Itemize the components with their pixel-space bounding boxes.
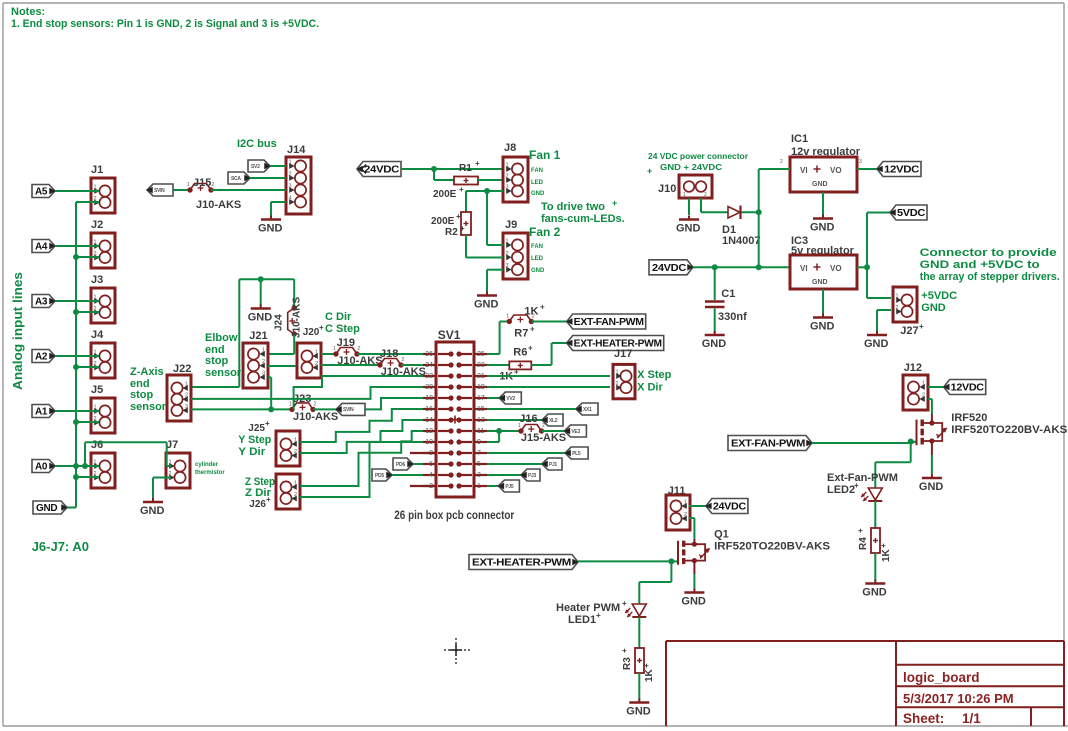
svg-text:3: 3 [859, 159, 862, 165]
svg-text:GND: GND [812, 181, 828, 188]
svg-text:the array of stepper drivers.: the array of stepper drivers. [920, 271, 1060, 283]
svg-text:2: 2 [212, 182, 215, 188]
svg-text:+: + [265, 419, 270, 428]
svg-text:J18: J18 [380, 348, 398, 360]
svg-text:+: + [459, 185, 464, 194]
svg-text:2: 2 [262, 359, 265, 365]
svg-text:+: + [854, 481, 859, 490]
svg-text:1: 1 [616, 370, 619, 376]
svg-text:fans-cum-LEDs.: fans-cum-LEDs. [541, 213, 625, 225]
svg-text:3: 3 [185, 404, 188, 410]
svg-text:+: + [266, 495, 271, 504]
svg-text:4: 4 [289, 196, 292, 202]
svg-text:2: 2 [616, 381, 619, 387]
svg-text:J19: J19 [337, 337, 355, 349]
svg-text:+: + [540, 303, 545, 312]
svg-text:VV2: VV2 [506, 396, 515, 402]
svg-text:25: 25 [477, 351, 485, 358]
svg-text:6: 6 [429, 461, 433, 468]
svg-text:5VDC: 5VDC [897, 208, 925, 219]
svg-text:thermistor: thermistor [195, 470, 225, 476]
svg-text:LED: LED [531, 180, 544, 186]
svg-text:2: 2 [358, 346, 361, 352]
svg-text:+: + [528, 344, 533, 353]
svg-text:GND: GND [812, 279, 828, 286]
svg-text:7: 7 [477, 450, 481, 457]
svg-text:GND: GND [862, 587, 887, 599]
svg-text:PJ5: PJ5 [505, 484, 514, 490]
svg-text:+: + [475, 159, 480, 168]
svg-text:5: 5 [477, 461, 481, 468]
svg-text:2: 2 [402, 357, 405, 363]
svg-text:1. End stop sensors: Pin 1 is: 1. End stop sensors: Pin 1 is GND, 2 is … [11, 18, 319, 30]
svg-text:1: 1 [315, 350, 318, 356]
svg-text:C Dir: C Dir [325, 311, 352, 323]
svg-text:SVIN: SVIN [343, 407, 354, 413]
svg-text:1: 1 [518, 423, 521, 429]
svg-text:R7: R7 [514, 328, 528, 340]
svg-text:12VDC: 12VDC [884, 165, 919, 176]
svg-text:2: 2 [185, 393, 188, 399]
svg-text:Fan 2: Fan 2 [529, 225, 561, 239]
svg-text:1: 1 [94, 350, 97, 356]
svg-text:+: + [612, 198, 617, 208]
svg-text:+: + [879, 543, 888, 548]
svg-text:J2: J2 [91, 219, 103, 231]
svg-text:J15: J15 [193, 177, 211, 189]
svg-text:logic_board: logic_board [903, 670, 980, 685]
svg-text:J9: J9 [505, 219, 517, 231]
svg-text:Z-Axis: Z-Axis [130, 366, 164, 378]
svg-text:GND: GND [531, 268, 545, 274]
svg-text:3: 3 [506, 185, 509, 191]
svg-text:2: 2 [169, 471, 172, 477]
svg-text:1K: 1K [644, 668, 655, 682]
svg-text:J22: J22 [173, 363, 191, 375]
svg-text:1: 1 [896, 294, 899, 300]
svg-text:C1: C1 [721, 288, 735, 300]
svg-text:IRF520: IRF520 [951, 412, 987, 424]
svg-text:SV2: SV2 [251, 164, 260, 170]
svg-text:J27: J27 [900, 325, 918, 337]
svg-text:Heater PWM: Heater PWM [556, 602, 620, 614]
svg-text:PD6: PD6 [396, 462, 405, 468]
svg-text:R4: R4 [858, 537, 869, 550]
svg-text:5/3/2017 10:26 PM: 5/3/2017 10:26 PM [903, 691, 1014, 706]
svg-text:J10-AKS: J10-AKS [196, 199, 241, 211]
svg-text:IRF520TO220BV-AKS: IRF520TO220BV-AKS [714, 541, 830, 553]
svg-text:IRF520TO220BV-AKS: IRF520TO220BV-AKS [951, 424, 1067, 436]
svg-text:sensor: sensor [130, 401, 167, 413]
svg-text:LED2: LED2 [827, 484, 855, 496]
svg-text:2: 2 [294, 492, 297, 498]
svg-text:23: 23 [477, 362, 485, 369]
svg-text:J4: J4 [91, 329, 104, 341]
svg-text:3: 3 [262, 371, 265, 377]
svg-text:GND: GND [702, 338, 727, 350]
svg-text:J20: J20 [303, 327, 320, 338]
svg-text:PJ3: PJ3 [528, 473, 537, 479]
svg-text:330nf: 330nf [718, 311, 747, 323]
svg-text:Y Dir: Y Dir [238, 446, 266, 458]
svg-text:1K: 1K [881, 548, 892, 562]
svg-text:J10-AKS: J10-AKS [292, 297, 303, 338]
svg-text:+: + [596, 611, 601, 620]
svg-text:GND: GND [810, 222, 835, 234]
svg-text:1: 1 [187, 182, 190, 188]
svg-text:J25: J25 [248, 423, 265, 434]
svg-text:stop: stop [205, 355, 229, 367]
svg-text:SCA: SCA [231, 176, 241, 182]
svg-text:1: 1 [922, 381, 925, 387]
svg-text:Y Step: Y Step [238, 434, 271, 446]
svg-text:1: 1 [294, 481, 297, 487]
svg-text:J16: J16 [519, 413, 537, 425]
svg-text:EXT-FAN-PWM: EXT-FAN-PWM [574, 317, 644, 328]
svg-text:2: 2 [506, 251, 509, 257]
svg-text:1: 1 [94, 405, 97, 411]
svg-text:1: 1 [506, 239, 509, 245]
svg-text:Elbow: Elbow [205, 332, 238, 344]
svg-text:1: 1 [506, 163, 509, 169]
svg-text:3: 3 [477, 472, 481, 479]
svg-text:22: 22 [425, 373, 433, 380]
svg-text:21: 21 [477, 373, 485, 380]
svg-text:XX1: XX1 [583, 407, 592, 413]
svg-text:2: 2 [506, 174, 509, 180]
svg-text:1: 1 [94, 240, 97, 246]
svg-text:J5: J5 [91, 384, 103, 396]
svg-text:+: + [919, 322, 924, 331]
svg-text:2: 2 [294, 449, 297, 455]
svg-text:2: 2 [684, 512, 687, 518]
svg-text:A4: A4 [35, 242, 48, 253]
svg-text:Connector to provide: Connector to provide [920, 247, 1057, 259]
svg-text:Analog input lines: Analog input lines [10, 272, 25, 390]
svg-text:J21: J21 [249, 330, 267, 342]
svg-text:GND: GND [531, 191, 545, 197]
svg-text:J14: J14 [287, 144, 306, 156]
svg-text:J24: J24 [274, 314, 285, 331]
svg-text:R2: R2 [445, 227, 458, 238]
svg-text:14: 14 [425, 417, 433, 424]
svg-text:2: 2 [922, 393, 925, 399]
svg-text:GND and +5VDC to: GND and +5VDC to [920, 259, 1040, 271]
svg-text:3: 3 [506, 263, 509, 269]
svg-text:+: + [319, 323, 324, 332]
svg-text:1/1: 1/1 [962, 711, 981, 726]
svg-text:+: + [622, 599, 627, 608]
svg-text:1: 1 [683, 192, 686, 198]
svg-text:VO: VO [830, 166, 842, 175]
svg-text:26: 26 [425, 351, 433, 358]
svg-text:XL2: XL2 [549, 418, 558, 424]
svg-text:+5VDC: +5VDC [921, 290, 957, 302]
svg-text:FAN: FAN [531, 244, 543, 250]
svg-text:1: 1 [684, 500, 687, 506]
svg-text:sensor: sensor [205, 367, 242, 379]
svg-text:24VDC: 24VDC [652, 263, 686, 274]
svg-text:LED1: LED1 [568, 614, 596, 626]
svg-text:26 pin box pcb connector: 26 pin box pcb connector [394, 508, 514, 522]
svg-text:16: 16 [425, 406, 433, 413]
svg-text:2: 2 [289, 172, 292, 178]
svg-text:11: 11 [477, 428, 484, 435]
svg-text:1: 1 [289, 160, 292, 166]
svg-text:X Dir: X Dir [637, 382, 663, 394]
svg-text:1: 1 [169, 460, 172, 466]
svg-text:2: 2 [896, 305, 899, 311]
svg-text:A0: A0 [35, 462, 48, 473]
svg-text:J7: J7 [166, 439, 178, 451]
svg-text:GND: GND [248, 312, 273, 324]
svg-text:J26: J26 [249, 499, 266, 510]
svg-text:2: 2 [704, 192, 707, 198]
svg-text:+: + [460, 224, 465, 233]
svg-text:1: 1 [333, 346, 336, 352]
svg-text:J12: J12 [904, 362, 922, 374]
svg-text:Ext-Fan-PWM: Ext-Fan-PWM [827, 472, 898, 484]
svg-text:17: 17 [477, 395, 485, 402]
svg-text:J6-J7: A0: J6-J7: A0 [32, 539, 89, 554]
svg-text:Notes:: Notes: [11, 6, 45, 18]
svg-text:1: 1 [94, 185, 97, 191]
svg-text:J17: J17 [614, 348, 632, 360]
svg-text:GND: GND [36, 503, 57, 514]
svg-text:IC1: IC1 [791, 133, 808, 145]
svg-text:12: 12 [425, 428, 433, 435]
svg-text:24: 24 [425, 362, 433, 369]
svg-text:Sheet:: Sheet: [903, 711, 944, 726]
svg-text:2: 2 [314, 401, 317, 407]
svg-text:A3: A3 [35, 297, 48, 308]
svg-text:J1: J1 [91, 164, 103, 176]
svg-text:A2: A2 [35, 352, 48, 363]
svg-text:cylinder: cylinder [195, 462, 219, 468]
svg-text:9: 9 [477, 439, 481, 446]
svg-text:VI: VI [800, 264, 808, 273]
svg-text:J10-AKS: J10-AKS [293, 411, 338, 423]
svg-text:PJ1: PJ1 [549, 462, 558, 468]
svg-text:GND: GND [919, 481, 944, 493]
svg-text:1: 1 [94, 295, 97, 301]
svg-text:12VDC: 12VDC [951, 383, 984, 394]
svg-text:10: 10 [425, 439, 433, 446]
svg-text:R3: R3 [622, 657, 633, 670]
svg-text:J8: J8 [504, 142, 516, 154]
svg-text:+: + [620, 648, 629, 653]
svg-text:GND: GND [681, 596, 706, 608]
svg-text:R1: R1 [459, 163, 472, 174]
svg-text:J10: J10 [658, 183, 676, 195]
svg-text:VI: VI [800, 166, 808, 175]
svg-text:1: 1 [262, 348, 265, 354]
svg-text:19: 19 [477, 384, 485, 391]
svg-text:A1: A1 [35, 407, 48, 418]
svg-text:18: 18 [425, 395, 433, 402]
svg-text:SV1: SV1 [438, 328, 461, 342]
svg-text:24VDC: 24VDC [364, 165, 399, 176]
svg-text:GND: GND [474, 299, 499, 311]
svg-text:24VDC: 24VDC [713, 502, 746, 513]
svg-text:13: 13 [477, 417, 485, 424]
svg-text:1N4007: 1N4007 [722, 235, 761, 247]
svg-text:VO: VO [830, 264, 842, 273]
svg-text:1: 1 [94, 460, 97, 466]
svg-text:R6: R6 [513, 347, 527, 359]
svg-text:+: + [642, 663, 651, 668]
svg-text:I2C bus: I2C bus [237, 138, 277, 150]
svg-text:To drive two: To drive two [541, 201, 605, 213]
svg-text:1: 1 [506, 314, 509, 320]
svg-text:1: 1 [185, 382, 188, 388]
svg-text:2: 2 [780, 159, 783, 165]
svg-text:200E: 200E [433, 189, 457, 200]
svg-text:stop: stop [130, 389, 154, 401]
svg-text:1: 1 [289, 401, 292, 407]
svg-text:200E: 200E [431, 216, 455, 227]
svg-text:J3: J3 [91, 274, 103, 286]
svg-text:GND: GND [626, 706, 651, 718]
svg-text:GND: GND [810, 321, 835, 333]
svg-text:24 VDC power connector: 24 VDC power connector [648, 152, 748, 161]
svg-text:2: 2 [542, 423, 545, 429]
svg-text:20: 20 [425, 384, 433, 391]
svg-text:+: + [856, 528, 865, 533]
svg-text:EXT-HEATER-PWM: EXT-HEATER-PWM [472, 558, 571, 569]
svg-text:C Step: C Step [325, 323, 360, 335]
svg-text:GND: GND [140, 505, 165, 517]
svg-text:+: + [456, 212, 461, 221]
svg-text:+: + [647, 166, 652, 176]
svg-text:Q1: Q1 [714, 529, 729, 541]
svg-text:VE3: VE3 [571, 429, 580, 435]
svg-text:15: 15 [477, 406, 485, 413]
svg-text:3: 3 [289, 184, 292, 190]
svg-text:SVIN: SVIN [154, 188, 165, 194]
svg-text:1: 1 [294, 438, 297, 444]
svg-text:PL5: PL5 [572, 451, 581, 457]
svg-text:EXT-FAN-PWM: EXT-FAN-PWM [731, 439, 805, 450]
svg-text:FAN: FAN [531, 168, 543, 174]
svg-text:+: + [530, 325, 535, 334]
svg-text:GND: GND [864, 338, 889, 350]
svg-text:J6: J6 [91, 439, 103, 451]
svg-text:A5: A5 [35, 187, 48, 198]
svg-text:Fan 1: Fan 1 [529, 148, 561, 162]
svg-text:LED: LED [531, 256, 544, 262]
svg-text:GND: GND [921, 302, 946, 314]
svg-text:1K: 1K [524, 306, 538, 318]
svg-text:PD5: PD5 [375, 473, 384, 479]
svg-text:X Step: X Step [637, 369, 672, 381]
svg-text:GND: GND [258, 223, 283, 235]
svg-text:4: 4 [429, 472, 433, 479]
svg-text:GND + 24VDC: GND + 24VDC [660, 163, 722, 172]
svg-text:1: 1 [477, 483, 481, 490]
svg-text:GND: GND [676, 223, 701, 235]
svg-text:2: 2 [315, 361, 318, 367]
svg-text:J15-AKS: J15-AKS [521, 432, 566, 444]
